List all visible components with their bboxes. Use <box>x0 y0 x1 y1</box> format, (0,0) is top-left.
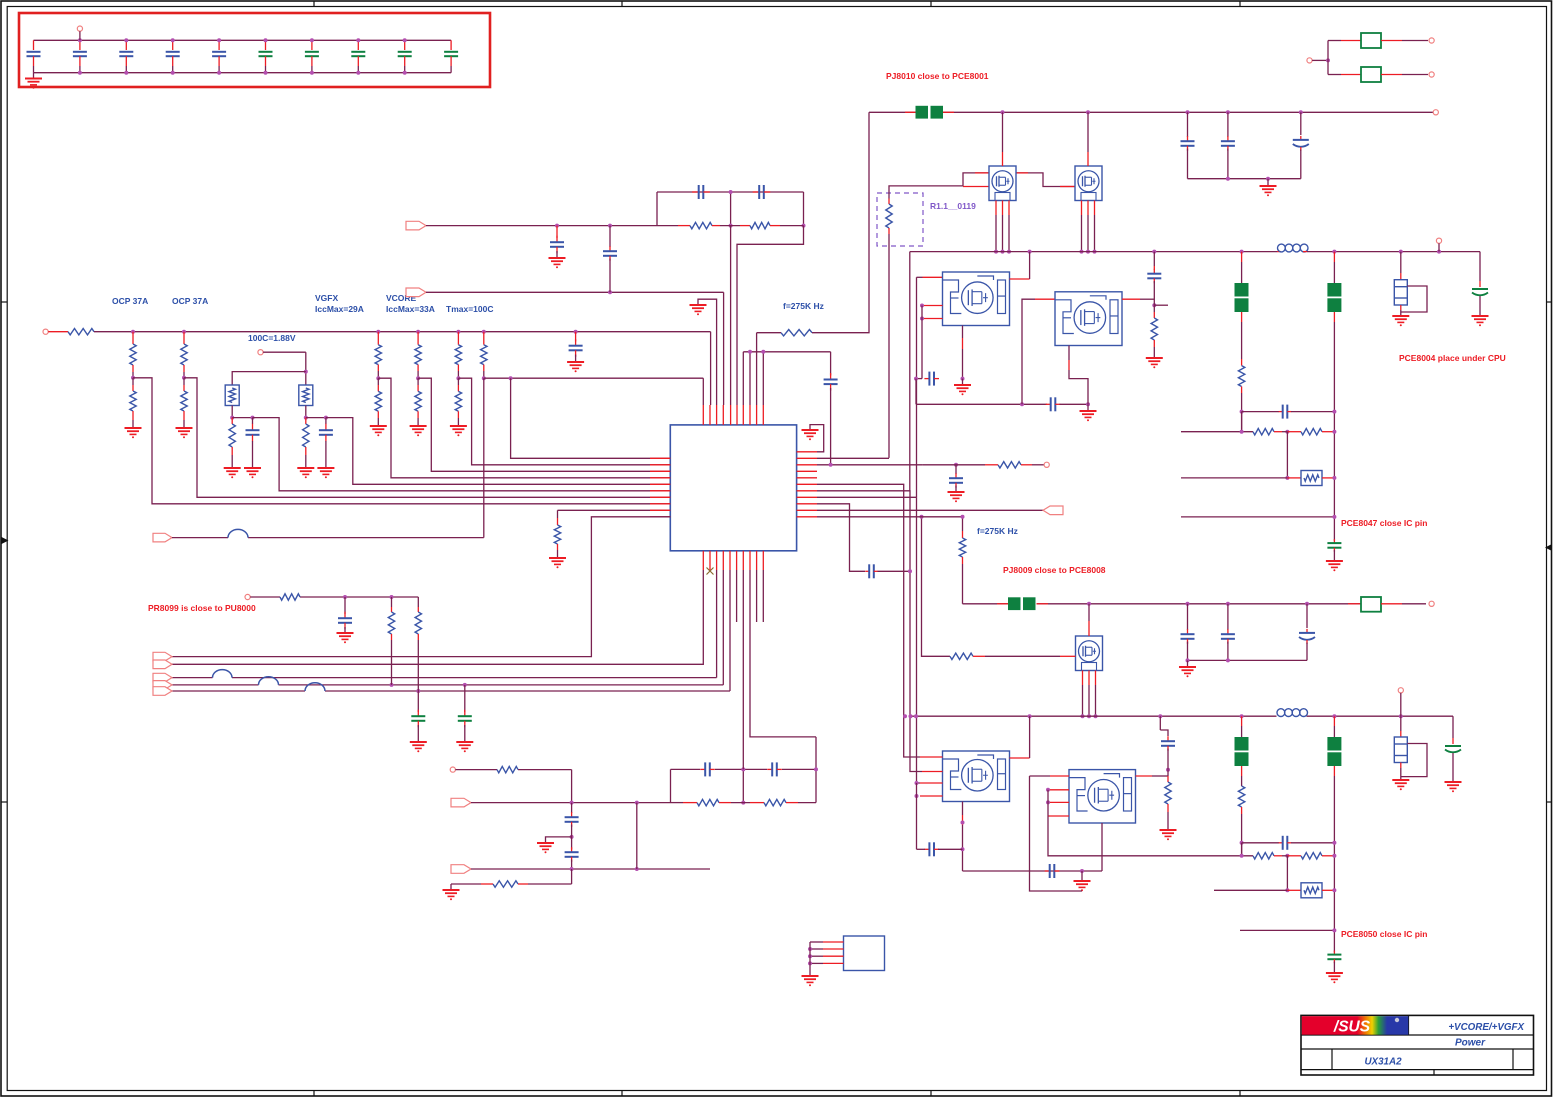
node PR8099 terminal <box>245 594 250 599</box>
svg-text:PJ8009 close to PCE8008: PJ8009 close to PCE8008 <box>1003 565 1106 575</box>
svg-text:UX31A2: UX31A2 <box>1364 1057 1402 1068</box>
capacitor bank C1 <box>27 40 41 72</box>
ground OCP1 <box>125 428 142 438</box>
wire IC top pin3 stub <box>698 299 717 405</box>
label Tmax=100C <box>446 304 494 314</box>
capacitor bootstrap 1154 <box>1147 252 1161 306</box>
capacitor bank C9 <box>398 40 412 72</box>
wire row431 mid drop <box>1285 432 1289 480</box>
wire sense col3 to pin row <box>458 378 670 465</box>
ground under RT1 <box>224 468 241 478</box>
capacitor snubber2 931 <box>917 842 963 856</box>
ground under RT2 <box>297 468 314 478</box>
wire bridge drop 636 <box>636 803 638 869</box>
wire row 478 left <box>1181 477 1301 479</box>
wire pkg4 right pin <box>1136 768 1171 776</box>
wire jumper2 loop <box>1401 744 1427 777</box>
resistor OCP1 upper <box>130 332 136 378</box>
wire right pin7 drop <box>817 491 922 772</box>
wire right pin6 drop <box>817 484 920 757</box>
IC top pin stubs <box>703 405 763 425</box>
svg-text:/SUS: /SUS <box>1333 1019 1371 1036</box>
wire pkg1 right pin <box>1010 252 1030 279</box>
ground green cap 464 <box>456 742 473 752</box>
wire row 930 <box>1240 928 1336 932</box>
wire IC pin750 to bridge right <box>750 570 816 737</box>
capacitor snubber 931 <box>924 372 939 386</box>
inductor bus L4 <box>259 677 279 685</box>
wire Q8002 source leads <box>1080 112 1097 253</box>
wire pin3 ext <box>922 464 985 466</box>
fuse box row890 <box>1301 883 1322 898</box>
node terminal 1439 <box>1436 238 1441 252</box>
capacitor bank C7 <box>305 40 319 72</box>
capacitor green 418 <box>411 691 425 742</box>
wire pkg4 bottom <box>1101 823 1103 871</box>
wire right pin8 drop <box>817 497 920 783</box>
fuse green F1 <box>1328 33 1428 48</box>
inductor output green L1 <box>1235 252 1249 359</box>
node terminal corner <box>1307 58 1330 63</box>
label PR8099 is close to PU8000 <box>148 603 256 613</box>
wire rail2 to IC top pin1 <box>702 378 704 405</box>
wire row 431 left <box>1181 430 1253 434</box>
capacitor PR8099 net <box>338 597 352 633</box>
node input arrow B2 <box>451 865 471 874</box>
wire rail2 <box>484 376 704 380</box>
wire boot node right <box>1154 304 1168 306</box>
ground sense col1 <box>370 426 387 436</box>
ground 1154 <box>1146 358 1163 368</box>
wire col4 long vertical <box>483 378 485 537</box>
ground pin3 cap <box>948 492 965 502</box>
wire rail1 left <box>48 331 68 333</box>
wire rail left drop <box>909 252 911 491</box>
wire left pin row 516 bus L1 <box>172 517 670 657</box>
inductor bus L3 <box>213 670 233 678</box>
capacitor rail112 C1 <box>1181 112 1195 178</box>
thermistor RT1 <box>225 385 239 406</box>
resistor sense col3 lower <box>455 378 461 426</box>
svg-text:OCP 37A: OCP 37A <box>172 296 208 306</box>
jumper PCE8004 <box>1394 252 1407 316</box>
wire H-net right to IC pin6 <box>737 226 804 405</box>
label VCORE IccMax=33A <box>386 293 435 314</box>
wire phase2 rail 603 <box>963 602 1362 606</box>
resistor under RT1 <box>229 418 235 468</box>
label OCP 37A (1) <box>112 296 148 306</box>
resistor pulldown mid <box>554 510 560 558</box>
capacitor bank C8 <box>351 40 365 72</box>
wire col4 branch to pin row <box>511 378 671 458</box>
capacitor series 1053 <box>1046 397 1061 411</box>
wire H-net center to IC pin5 <box>730 226 732 405</box>
capacitor rail112 C3 polarized <box>1293 112 1309 178</box>
wire OCP2 to pin row <box>184 378 670 498</box>
wire gnd 451 <box>450 884 452 890</box>
resistor bridge R1 <box>671 799 751 805</box>
capacitor rail112 C2 <box>1221 112 1235 178</box>
resistor row855 R2 <box>1287 853 1336 859</box>
transistor PU8002 package <box>1055 292 1122 346</box>
capacitor comp 1285b <box>1240 836 1337 856</box>
capacitor 571 upper <box>565 803 579 832</box>
resistor gate Q8008 <box>950 653 1076 659</box>
inductor output green L2 <box>1327 252 1341 541</box>
wire spur to vert <box>878 569 913 573</box>
wire bridge feed <box>455 770 571 803</box>
wire snubber right <box>1060 402 1091 406</box>
wire pkg2 bottom lead <box>1069 346 1088 405</box>
fuse box row478 <box>1301 471 1322 486</box>
transistor PU8004 package <box>1069 770 1136 823</box>
capacitor green 464 <box>458 685 472 742</box>
resistor row431 R1 <box>1253 429 1282 435</box>
ground cap bank <box>25 73 42 89</box>
ground rail1 decouple <box>567 362 584 372</box>
node input arrow A5 <box>153 687 172 696</box>
wire row 855 left <box>1194 854 1253 858</box>
wire pkg1 bottom lead <box>961 326 965 381</box>
ground PR8099 cap <box>337 633 354 643</box>
ground sense col2 <box>410 426 427 436</box>
transistor PU8001 package <box>943 272 1010 326</box>
jumper PCE8009 <box>1394 716 1407 780</box>
wire phase2 rail 716 <box>909 714 1454 718</box>
IC left pin stubs <box>650 458 670 517</box>
ground right pin1 <box>802 430 819 440</box>
wire pkg4 feed <box>1030 776 1083 891</box>
svg-text:+VCORE/+VGFX: +VCORE/+VGFX <box>1448 1022 1525 1033</box>
resistor f275 bottom <box>959 531 965 604</box>
wire pkg2 right pin <box>1122 299 1156 307</box>
ground 1334 <box>1326 561 1343 571</box>
label PCE8004 place under CPU <box>1399 353 1506 363</box>
node rail1 left terminal <box>43 329 48 334</box>
node OCP1 <box>131 376 135 380</box>
node input arrow VIN2 <box>406 288 426 297</box>
node input arrow B1 <box>451 798 471 807</box>
node 100C terminal <box>258 350 308 385</box>
svg-text:PJ8010 close to PCE8001: PJ8010 close to PCE8001 <box>886 71 989 81</box>
node input arrow A1 <box>153 652 172 661</box>
node input arrow A2 <box>153 660 172 669</box>
wire coil line <box>172 537 484 539</box>
wire resistor to top rail <box>812 112 869 332</box>
resistor f275 top <box>781 330 812 336</box>
resistor 1168 <box>1165 770 1171 830</box>
resistor sense col3 upper <box>455 332 461 379</box>
node terminal rail603 <box>1429 601 1434 606</box>
ground sense col3 <box>450 426 467 436</box>
label PJ8009 close to PCE8008 <box>1003 565 1106 575</box>
svg-text:PCE8004 place under CPU: PCE8004 place under CPU <box>1399 353 1506 363</box>
capacitor bank C6 <box>259 40 273 72</box>
capacitor boot 830 <box>824 352 838 465</box>
wire fuse2 to 1334 <box>1322 888 1336 892</box>
wire pkg2 feed <box>1022 299 1055 404</box>
wire thermistor2 bottom node <box>304 406 328 420</box>
wire jumper loop <box>1401 286 1427 312</box>
label PCE8047 close IC pin <box>1341 518 1427 528</box>
ground OCP2 <box>176 428 193 438</box>
capacitor green 1334 <box>1327 539 1341 561</box>
wire thermistor1 top <box>232 372 306 385</box>
capacitor beside RT2 <box>319 418 333 468</box>
ground pulldown mid <box>549 558 566 568</box>
wire row 517 <box>1181 515 1336 519</box>
ground PCE8004 <box>1392 316 1409 326</box>
resistor row431 R2 <box>1287 429 1336 435</box>
wire row 890 left <box>1214 889 1301 891</box>
capacitor bootstrap2 1168 <box>1160 716 1175 770</box>
capacitor bank C3 <box>119 40 133 72</box>
svg-text:PCE8047 close IC pin: PCE8047 close IC pin <box>1341 518 1427 528</box>
wire cap bank top and bottom rails <box>34 40 452 72</box>
inductor PL8005 <box>1277 709 1307 717</box>
wire right pin11 fsel <box>817 515 965 531</box>
ground PCE8009 <box>1392 780 1409 790</box>
wire snubber2 rail <box>963 869 1103 873</box>
wire top rail 112 <box>869 110 1433 114</box>
capacitor beside RT1 <box>246 418 260 468</box>
capacitor H-net C1 <box>692 185 710 199</box>
ground spur 545 <box>537 843 554 853</box>
ground pkg1 bottom <box>954 379 971 396</box>
wire sense col2 to pin row <box>418 378 670 471</box>
wire gate top net <box>889 173 989 193</box>
capacitor poly output2 <box>1445 716 1461 782</box>
svg-text:f=275K Hz: f=275K Hz <box>783 301 824 311</box>
label PCE8050 close IC pin <box>1341 929 1427 939</box>
capacitor rail603 C1 <box>1181 604 1195 661</box>
wire gate lower stub <box>963 186 989 188</box>
title text Power <box>1455 1038 1486 1049</box>
wire bus L5 <box>172 570 730 693</box>
wire rail112 cap bottoms <box>1188 177 1301 181</box>
node input arrow A0 <box>153 533 172 542</box>
inductor PL8004 <box>1277 244 1308 252</box>
wire right pin1 gnd loop <box>810 425 824 452</box>
node input arrow A4 <box>153 681 172 690</box>
capacitor H-net C2 <box>753 185 771 199</box>
capacitor 571 lower <box>565 847 579 869</box>
wire RT2 row to pin row <box>326 418 670 485</box>
wire pin3 jog <box>921 464 923 466</box>
wire bottom stubs <box>737 570 764 622</box>
wire rail1 main <box>94 330 711 334</box>
wire phase rail 251 <box>910 250 1480 254</box>
ground green cap 418 <box>410 742 427 752</box>
node top rail terminal <box>1433 110 1438 115</box>
wire row 869 <box>471 867 710 871</box>
label f=275K Hz (bottom) <box>977 526 1018 536</box>
wire rail603 cap bottoms <box>1186 658 1308 662</box>
wire right pin2 gate <box>817 457 889 459</box>
wire Q8001 source leads <box>994 112 1011 253</box>
inductor output green L4 <box>1327 716 1341 952</box>
resistor PR8099 <box>280 594 300 600</box>
ground poly cap <box>1472 316 1489 326</box>
wire rail292 to IC top pin4 <box>723 292 725 405</box>
node sense col2 <box>416 376 420 380</box>
wire pkg1 top pin feed <box>917 277 943 497</box>
wire Q8008 drain <box>1088 604 1090 636</box>
resistor row 884 <box>451 869 572 887</box>
wire rail 225 to H-network <box>426 224 657 228</box>
node output arrow pin10 <box>1043 506 1063 515</box>
svg-text:IccMax=29A: IccMax=29A <box>315 304 364 314</box>
label OCP 37A (2) <box>172 296 208 306</box>
resistor sense col2 lower <box>415 378 421 426</box>
wire verticals into rail716 <box>903 714 918 718</box>
capacitor bank C10 <box>444 40 458 72</box>
wire bus L2 <box>172 570 703 664</box>
capacitor bridge C2 <box>767 762 782 776</box>
node 571 mid <box>570 832 574 850</box>
capacitor rail603 C2 <box>1221 604 1235 661</box>
resistor sense col1 upper <box>375 332 381 379</box>
resistor sense col1 lower <box>375 378 381 426</box>
node +V terminal cap bank <box>77 26 82 40</box>
node sense col3 <box>456 376 460 380</box>
transistor Q8001 high-side <box>989 166 1016 201</box>
resistor bridge feed <box>497 766 518 772</box>
wire gate link Q1-Q2 <box>1016 173 1075 187</box>
svg-text:OCP 37A: OCP 37A <box>112 296 148 306</box>
wire row855 mid drop <box>1285 856 1289 893</box>
wire fuse to 1334 <box>1322 476 1336 480</box>
IC right pin stubs <box>797 452 817 517</box>
IC bottom pin stubs <box>703 551 763 570</box>
capacitor rail603 C3 polarized <box>1299 604 1315 661</box>
node pin3 terminal <box>1044 462 1049 467</box>
resistor R1.1 gate <box>886 193 892 458</box>
ground rail112 caps <box>1260 179 1277 197</box>
resistor under RT2 <box>303 418 309 468</box>
connector J body <box>844 936 885 971</box>
capacitor bank C2 <box>73 40 87 72</box>
ground snubber2 <box>1074 871 1091 891</box>
label PJ8010 close to PCE8001 <box>886 71 989 81</box>
svg-text:Tmax=100C: Tmax=100C <box>446 304 494 314</box>
connector J pins <box>808 942 844 976</box>
jumper PJ8010 <box>905 106 954 119</box>
label VGFX IccMax=29A <box>315 293 364 314</box>
wire snubber net <box>916 379 1047 407</box>
wire row510 stub <box>558 509 671 511</box>
node row431 mid <box>1282 430 1289 434</box>
junction dots cap bank <box>78 38 407 74</box>
svg-text:PCE8050 close IC pin: PCE8050 close IC pin <box>1341 929 1427 939</box>
label R1.1__0119 <box>930 201 976 211</box>
dashed box R1.1__0119 <box>877 193 923 246</box>
capacitor comp 1285 <box>1240 405 1337 432</box>
fuse green F2 <box>1328 67 1428 82</box>
wire corner split <box>1327 41 1329 75</box>
capacitor between rails at 610 <box>603 226 617 293</box>
capacitor rail1 decouple <box>569 332 583 362</box>
resistor rail1 series <box>68 329 94 335</box>
resistor drop 418 <box>415 597 421 691</box>
ground snubber <box>1080 404 1097 421</box>
ground cap 557 <box>549 258 566 268</box>
title text VCORE <box>1448 1022 1525 1033</box>
resistor H-net R1 <box>657 222 740 228</box>
ground 1334b <box>1326 973 1343 983</box>
capacitor poly output <box>1472 252 1488 316</box>
node terminal R bridge <box>450 767 455 772</box>
svg-text:IccMax=33A: IccMax=33A <box>386 304 435 314</box>
ground IC top pin3 <box>690 305 707 315</box>
inductor coil line <box>228 529 248 537</box>
wire thermistor1 bottom node <box>230 406 254 420</box>
wire pkg3 bottom lead <box>961 802 965 872</box>
resistor sense 1241 <box>1238 359 1244 432</box>
wire sense col1 to pin row <box>378 378 670 478</box>
resistor sense col4 upper <box>481 332 487 379</box>
resistor pin3 out <box>985 462 1044 468</box>
node terminal 1400b <box>1398 688 1403 717</box>
transistor PU8003 package <box>943 751 1010 802</box>
node row855 mid <box>1282 854 1289 858</box>
ground rail603 caps <box>1179 660 1196 677</box>
no-connect X marker <box>707 568 714 575</box>
resistor 1154 <box>1151 305 1157 358</box>
wire bus L4 <box>172 570 723 687</box>
node input arrow A3 <box>153 673 172 682</box>
inductor bus L5 <box>305 683 325 691</box>
wire RT1 row to pin row <box>253 418 671 491</box>
capacitor between rails at 557 <box>550 226 564 258</box>
svg-text:R1.1__0119: R1.1__0119 <box>930 201 976 211</box>
resistor bridge R2 <box>750 799 816 805</box>
label 100C=1.88V <box>248 333 296 343</box>
label f=275K Hz (top) <box>783 301 824 311</box>
wire Q8008 source leads <box>1081 671 1098 719</box>
wire pkg1 gate pins <box>914 304 943 381</box>
svg-text:PR8099 is close to PU8000: PR8099 is close to PU8000 <box>148 603 256 613</box>
wire right pin10 arrow <box>817 509 1043 511</box>
wire H-network frame <box>657 190 806 228</box>
ground 451 <box>443 890 460 900</box>
ground cap RT1 <box>244 468 261 478</box>
svg-text:100C=1.88V: 100C=1.88V <box>248 333 296 343</box>
resistor H-net R2 <box>740 222 804 228</box>
resistor OCP2 upper <box>181 332 187 378</box>
wire rail 292 <box>426 290 724 294</box>
wire top pins to boot cap <box>743 350 830 405</box>
wire gnd spur 545 <box>546 837 572 843</box>
ASUS logo <box>1302 1016 1409 1035</box>
fuse green box PCE8008 <box>1348 597 1426 612</box>
capacitor series2 1005 <box>1045 864 1060 878</box>
node terminal F2 <box>1429 72 1434 77</box>
wire pkg3 right pin <box>1010 716 1030 758</box>
title block table <box>1301 1015 1534 1075</box>
ground poly cap2 <box>1445 782 1462 792</box>
svg-text:Power: Power <box>1455 1038 1486 1049</box>
node OCP2 <box>182 376 186 380</box>
inductor output green L3 <box>1235 716 1249 786</box>
wire gate drop 921 <box>920 515 951 657</box>
wire IC top pin9 <box>757 333 781 405</box>
svg-text:VGFX: VGFX <box>315 293 338 303</box>
wire right pin9 cap spur <box>817 504 865 572</box>
capacitor bank C4 <box>166 40 180 72</box>
wire rail1 to IC pin <box>710 332 712 405</box>
node sense col1 <box>376 376 380 380</box>
